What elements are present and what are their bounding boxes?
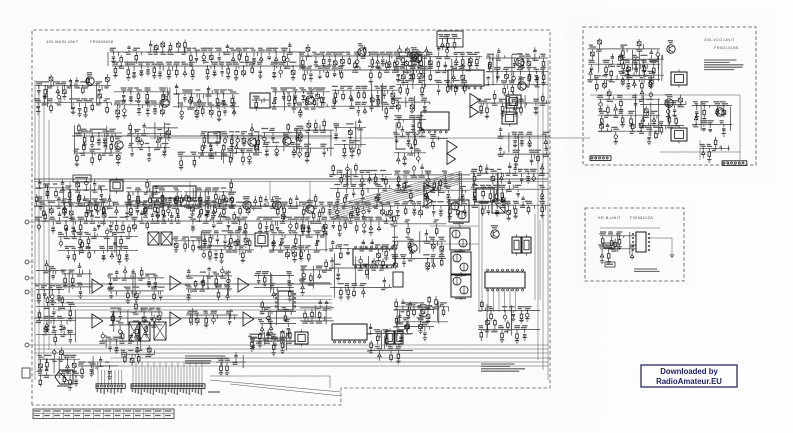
svg-text:RadioAmateur.EU: RadioAmateur.EU (656, 377, 722, 386)
svg-text:430-MAIN-UNIT: 430-MAIN-UNIT (46, 40, 79, 44)
svg-text:KR-B-UNIT: KR-B-UNIT (598, 216, 621, 220)
svg-text:FR0808008: FR0808008 (90, 40, 113, 44)
svg-text:F3598102A: F3598102A (630, 216, 653, 220)
svg-text:Downloaded by: Downloaded by (660, 367, 718, 376)
svg-text:FR0D1010B: FR0D1010B (714, 46, 739, 50)
svg-text:430-VCO-UNIT: 430-VCO-UNIT (704, 38, 735, 42)
